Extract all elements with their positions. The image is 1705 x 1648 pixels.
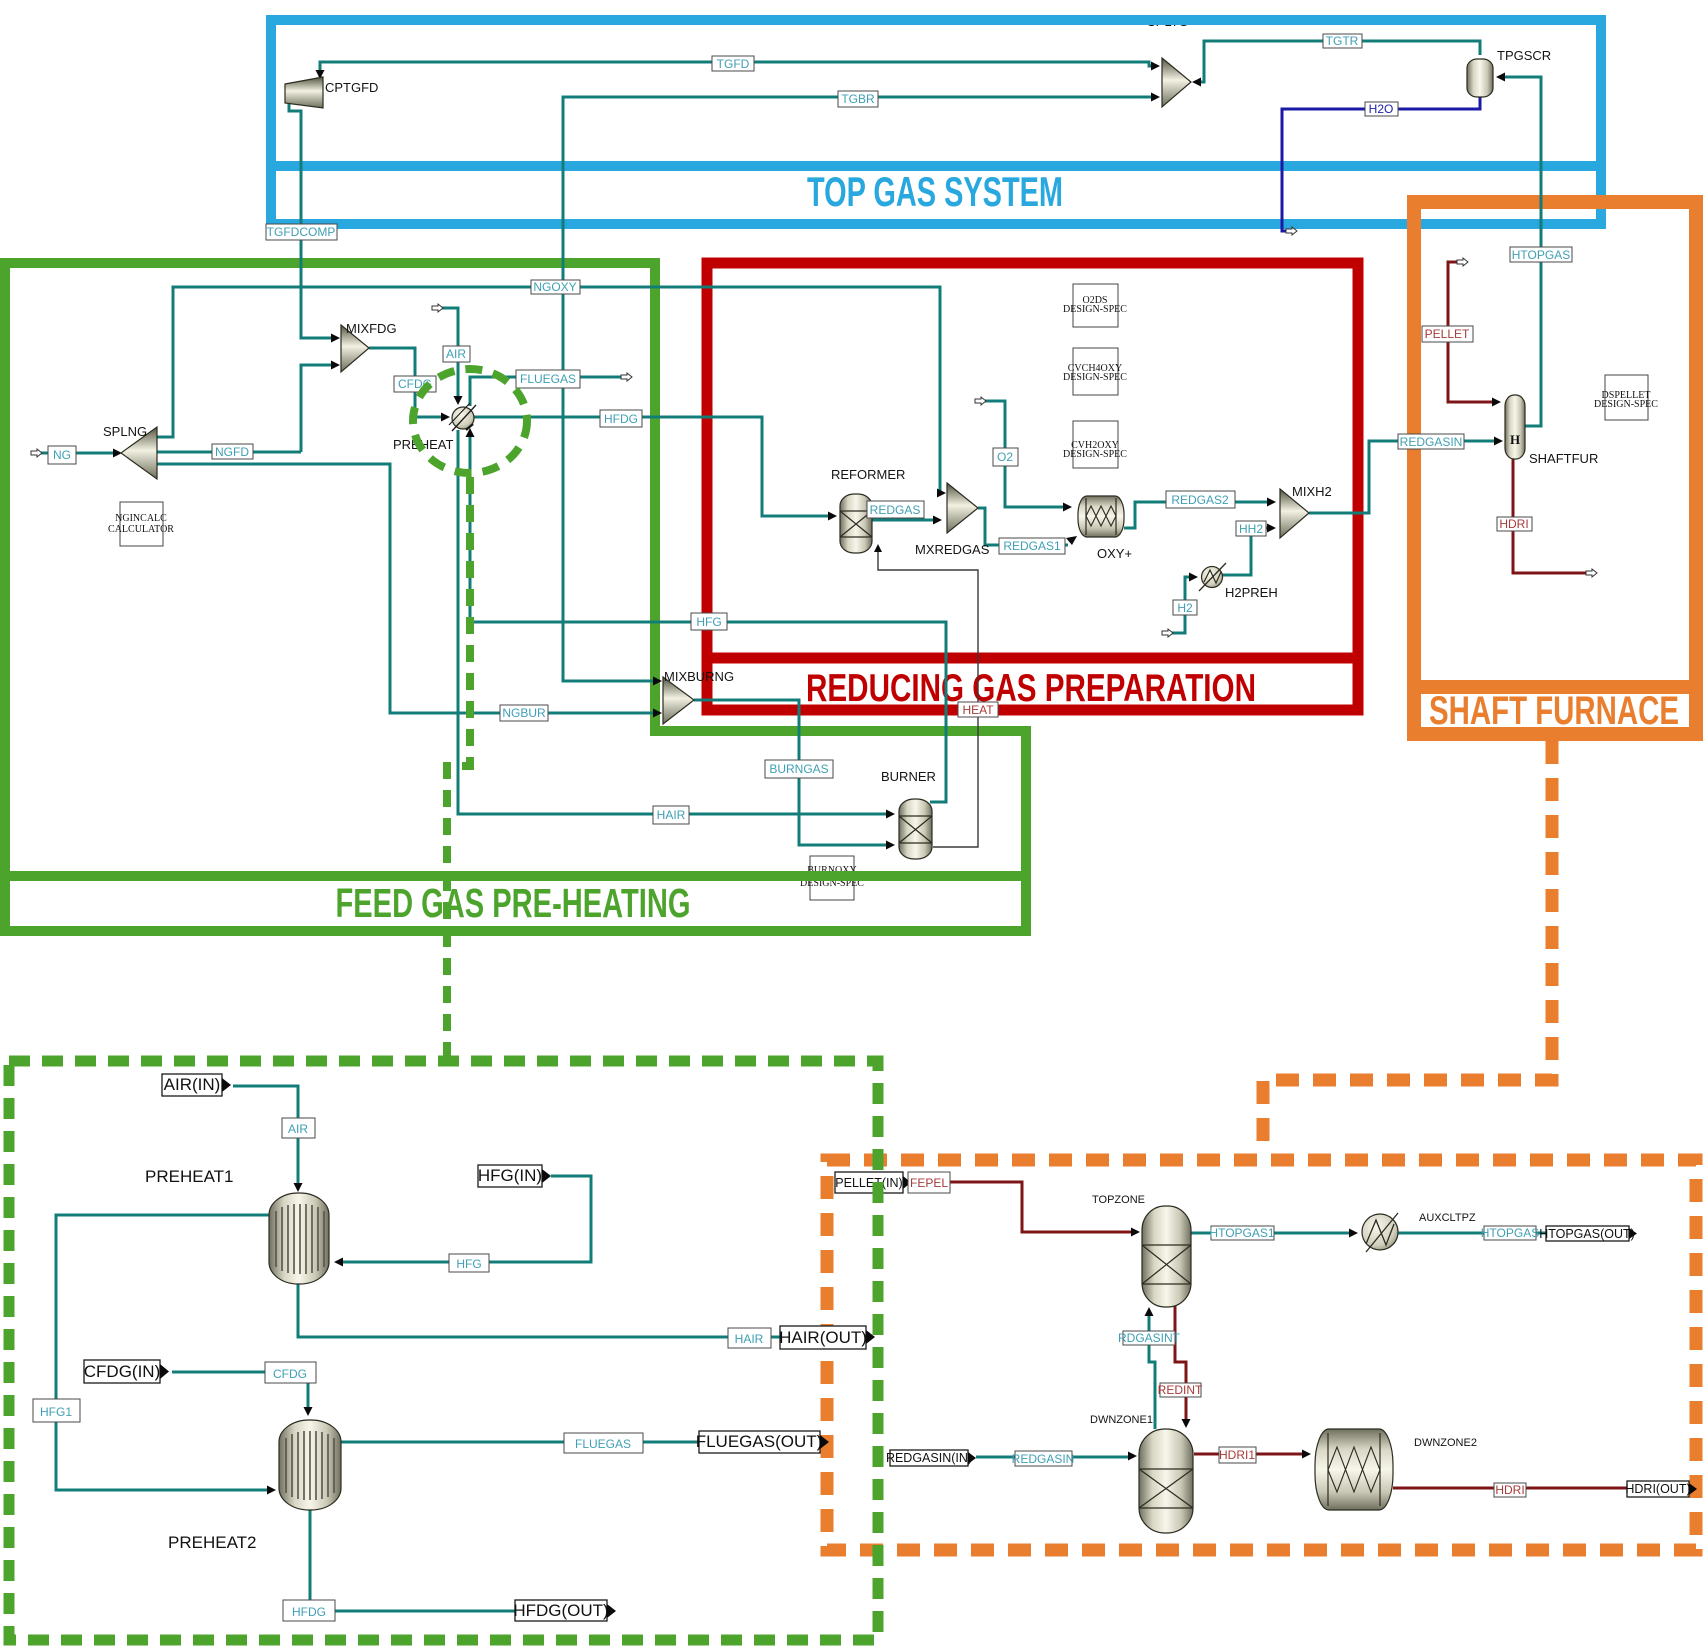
reactor DWNZONE2 [1315, 1429, 1393, 1510]
svg-text:REDGAS2: REDGAS2 [1171, 493, 1229, 507]
svg-text:HFG: HFG [696, 615, 721, 629]
node HAIR(OUT) port label [779, 1326, 875, 1349]
wire HFDG [474, 417, 831, 516]
svg-text:HEAT: HEAT [962, 703, 994, 717]
svg-text:NGBUR: NGBUR [502, 706, 546, 720]
frame green dashed detail box [9, 1061, 878, 1640]
mixer MIXFDG [341, 325, 369, 372]
svg-text:HDRI(OUT): HDRI(OUT) [1625, 1482, 1690, 1496]
node HFG(IN) port label [478, 1165, 551, 1187]
frame orange dashed detail box [827, 1160, 1696, 1550]
svg-text:HTOPGAS(OUT): HTOPGAS(OUT) [1539, 1227, 1635, 1241]
heater PREHEAT (hierarchy) [449, 403, 476, 431]
node REDGAS2 label [1166, 491, 1235, 508]
wire CFDG detail [172, 1372, 308, 1410]
wire TGFDCOMP [289, 101, 334, 338]
reactor REFORMER [840, 494, 872, 553]
node HTOPGAS label detail [1481, 1226, 1539, 1240]
svg-text:NGFD: NGFD [215, 445, 249, 459]
svg-text:PREHEAT2: PREHEAT2 [168, 1533, 257, 1552]
svg-text:AIR: AIR [288, 1122, 308, 1136]
svg-text:CPTGFD: CPTGFD [325, 80, 378, 95]
svg-text:PELLET: PELLET [1425, 327, 1470, 341]
svg-text:HFDG(OUT): HFDG(OUT) [513, 1601, 608, 1620]
svg-text:SHAFT FURNACE: SHAFT FURNACE [1429, 689, 1679, 733]
node HH2 label [1236, 521, 1266, 536]
wire REDGAS2 [1124, 502, 1270, 528]
svg-text:NG: NG [53, 448, 71, 462]
wire HTOPGAS main [1500, 77, 1541, 426]
wire H2 [1172, 577, 1191, 633]
svg-text:TOP GAS SYSTEM: TOP GAS SYSTEM [807, 168, 1063, 215]
node FLUEGAS(OUT) port label [696, 1431, 829, 1453]
svg-text:HFG(IN): HFG(IN) [478, 1166, 542, 1185]
node HDRI1 label [1219, 1447, 1256, 1463]
wire REDGAS [872, 519, 936, 522]
node TGFDCOMP label [266, 224, 337, 240]
wire green dashed connector [447, 477, 470, 1056]
wire TGTR [1201, 41, 1480, 82]
node NG label [48, 446, 76, 464]
svg-text:REDUCING GAS PREPARATION: REDUCING GAS PREPARATION [806, 667, 1256, 710]
svg-text:PREHEAT1: PREHEAT1 [145, 1167, 234, 1186]
svg-text:HTOPGAS: HTOPGAS [1512, 248, 1570, 262]
svg-text:AIR(IN): AIR(IN) [164, 1075, 221, 1094]
svg-text:HAIR: HAIR [735, 1332, 764, 1346]
node HAIR label detail [728, 1328, 771, 1348]
wire AIR detail [233, 1086, 298, 1186]
wire NGFD [157, 451, 301, 454]
svg-text:FLUEGAS: FLUEGAS [520, 372, 576, 386]
wire HDRI main [1513, 459, 1588, 573]
wire REDINT [1175, 1305, 1186, 1422]
node green dashed circle PREHEAT [413, 369, 527, 473]
svg-text:TOPZONE: TOPZONE [1092, 1194, 1145, 1206]
node RDGASINT label [1118, 1331, 1181, 1345]
svg-text:REFORMER: REFORMER [831, 467, 905, 482]
compressor CPTGFD [285, 77, 323, 108]
svg-text:MIXFDG: MIXFDG [346, 321, 397, 336]
node H2O label [1365, 102, 1398, 116]
node REDGASIN(IN) port label [886, 1450, 976, 1466]
node HFG label main [691, 613, 727, 630]
exchanger H2PREH [1199, 563, 1226, 591]
svg-text:BURNGAS: BURNGAS [769, 762, 828, 776]
node REDINT label [1158, 1383, 1203, 1397]
svg-text:HTOPGAS: HTOPGAS [1481, 1226, 1539, 1240]
svg-text:CALCULATOR: CALCULATOR [108, 524, 174, 535]
mixer MIXH2 [1280, 489, 1309, 538]
svg-text:REDGASIN: REDGASIN [1012, 1452, 1075, 1466]
svg-text:MIXH2: MIXH2 [1292, 484, 1332, 499]
design-spec box DSPELLET [1594, 375, 1658, 420]
node CFDG(IN) port label [84, 1360, 169, 1383]
svg-text:MXREDGAS: MXREDGAS [915, 542, 990, 557]
svg-text:DESIGN-SPEC: DESIGN-SPEC [1063, 449, 1127, 460]
wire NGBUR [157, 464, 656, 713]
svg-text:HAIR(OUT): HAIR(OUT) [779, 1328, 867, 1347]
svg-text:DWNZONE1: DWNZONE1 [1090, 1414, 1153, 1426]
heater PREHEAT2 [279, 1420, 341, 1510]
svg-text:OXY+: OXY+ [1097, 546, 1132, 561]
wire HTOPGAS detail [1398, 1232, 1629, 1235]
wire BURNGAS [694, 700, 889, 845]
svg-text:HTOPGAS1: HTOPGAS1 [1209, 1226, 1274, 1240]
svg-text:H2PREH: H2PREH [1225, 585, 1278, 600]
svg-text:HDRI1: HDRI1 [1219, 1448, 1255, 1462]
svg-text:TGBR: TGBR [841, 92, 875, 106]
wire O2 [985, 401, 1066, 507]
node HEAT label [958, 702, 998, 717]
svg-text:DESIGN-SPEC: DESIGN-SPEC [1594, 399, 1658, 410]
wire H2O [1282, 97, 1480, 231]
wire HDRI1 [1194, 1453, 1305, 1456]
node AIR(IN) port label [162, 1074, 231, 1096]
wire FLUEGAS main [470, 377, 623, 406]
wire HFG detail [340, 1176, 591, 1262]
svg-text:HAIR: HAIR [657, 808, 686, 822]
reactor BURNER [899, 799, 932, 859]
svg-text:AIR: AIR [446, 347, 466, 361]
wire HEAT (heat stream) [878, 548, 978, 847]
design-spec box CVCH4OXY [1063, 348, 1127, 395]
node TGFD label [712, 56, 754, 71]
wire HAIR detail [298, 1284, 782, 1337]
wire HTOPGAS1 [1191, 1232, 1352, 1235]
reactor OXY+ [1078, 496, 1124, 537]
wire HAIR main [458, 430, 889, 814]
node HDRI label detail [1494, 1483, 1526, 1497]
node HFDG label main [600, 410, 642, 427]
svg-text:CFDG: CFDG [273, 1367, 307, 1381]
wire REDGASIN main [1309, 441, 1497, 513]
wire FEPEL [910, 1182, 1134, 1232]
svg-text:HFDG: HFDG [292, 1605, 326, 1619]
svg-text:FLUEGAS(OUT): FLUEGAS(OUT) [696, 1432, 823, 1451]
svg-text:FEPEL: FEPEL [910, 1176, 948, 1190]
wire HFDG detail [310, 1510, 517, 1611]
vessel TPGSCR [1467, 59, 1493, 97]
wire REDGAS1 [978, 508, 1068, 545]
column SHAFTFUR [1505, 395, 1525, 459]
wire AIR main [442, 308, 458, 400]
svg-text:RDGASINT: RDGASINT [1118, 1331, 1181, 1345]
node HTOPGAS1 label [1209, 1226, 1274, 1240]
svg-text:HFG1: HFG1 [40, 1405, 72, 1419]
svg-text:NGOXY: NGOXY [533, 280, 576, 294]
svg-text:HDRI: HDRI [1495, 1483, 1524, 1497]
node REDGAS1 label [999, 538, 1065, 554]
node HFDG label detail [283, 1600, 335, 1621]
node FEPEL label [908, 1172, 950, 1193]
node HDRI label main [1497, 517, 1532, 531]
svg-text:TGTR: TGTR [1326, 34, 1359, 48]
node HAIR label main [653, 806, 689, 824]
mixer MXREDGAS [947, 483, 978, 533]
splitter SPLTG [1162, 58, 1191, 107]
node CFDG label [394, 376, 436, 392]
svg-text:SHAFTFUR: SHAFTFUR [1529, 451, 1598, 466]
splitter SPLNG [121, 427, 157, 479]
svg-text:REDGAS: REDGAS [870, 503, 921, 517]
reactor DWNZONE1 [1139, 1429, 1193, 1533]
wire orange dashed connector [1263, 741, 1552, 1154]
wire TGFD [320, 62, 1156, 77]
wire HH2 [1222, 528, 1270, 575]
exchanger AUXCLTPZ [1362, 1213, 1398, 1252]
svg-text:HH2: HH2 [1239, 522, 1263, 536]
svg-text:FEED GAS PRE-HEATING: FEED GAS PRE-HEATING [336, 880, 691, 926]
node NGBUR label [500, 705, 548, 721]
svg-text:REDGAS1: REDGAS1 [1003, 539, 1061, 553]
svg-text:TPGSCR: TPGSCR [1497, 48, 1551, 63]
node H2 label [1173, 600, 1197, 615]
svg-text:H2O: H2O [1369, 102, 1394, 116]
wire REDGASIN detail [976, 1456, 1131, 1459]
wire FLUEGAS detail [337, 1441, 701, 1444]
svg-text:CFDG(IN): CFDG(IN) [84, 1362, 160, 1381]
design-spec box NGINCALC [108, 502, 174, 546]
svg-text:TGFD: TGFD [717, 57, 750, 71]
frame SHAFT FURNACE (orange) [1408, 202, 1702, 734]
svg-text:H2: H2 [1177, 601, 1193, 615]
svg-text:DESIGN-SPEC: DESIGN-SPEC [1063, 304, 1127, 315]
svg-text:AUXCLTPZ: AUXCLTPZ [1419, 1212, 1476, 1224]
node FLUEGAS label main [516, 370, 580, 388]
node AIR label detail [282, 1118, 315, 1138]
node PELLET(IN) port label [835, 1172, 911, 1193]
node REDGASIN label main [1398, 434, 1464, 449]
wire TGBR [563, 97, 1156, 681]
svg-text:FLUEGAS: FLUEGAS [575, 1437, 631, 1451]
wire RDGASINT [1149, 1312, 1155, 1429]
wire PELLET [1448, 262, 1495, 402]
wire NG [40, 452, 116, 455]
frame TOP GAS SYSTEM (blue) [267, 20, 1605, 224]
svg-text:NGINCALC: NGINCALC [115, 513, 167, 524]
node NGOXY label [531, 280, 580, 294]
design-spec box O2DS [1063, 284, 1127, 327]
node TGBR label [838, 91, 878, 107]
design-spec box CVH2OXY [1063, 421, 1127, 468]
wire HFG1 [56, 1215, 270, 1490]
node TGTR label [1323, 34, 1362, 48]
svg-text:O2: O2 [997, 450, 1013, 464]
node HFG label detail [449, 1254, 489, 1272]
svg-text:BURNER: BURNER [881, 769, 936, 784]
node HTOPGAS(OUT) port label [1539, 1226, 1637, 1241]
svg-text:REDGASIN(IN): REDGASIN(IN) [886, 1451, 972, 1465]
node FLUEGAS label detail [564, 1433, 643, 1453]
node AIR label [443, 346, 470, 362]
wire HDRI detail [1393, 1487, 1689, 1490]
frame REDUCING GAS PREPARATION (red) [702, 263, 1363, 710]
node CFDG label detail [265, 1362, 316, 1383]
node HFDG(OUT) port label [513, 1600, 616, 1621]
node HFG1 label [33, 1399, 80, 1422]
svg-text:DWNZONE2: DWNZONE2 [1414, 1437, 1477, 1449]
heater PREHEAT1 [269, 1193, 329, 1284]
svg-text:HFG: HFG [456, 1257, 481, 1271]
frame FEED GAS PRE-HEATING (green) [0, 263, 1031, 931]
node HDRI(OUT) port label [1625, 1481, 1697, 1497]
node BURNGAS label [765, 760, 833, 778]
node NGFD label [212, 444, 253, 459]
node REDGASIN label detail [1012, 1451, 1075, 1466]
svg-text:SPLNG: SPLNG [103, 424, 147, 439]
design-spec box BURNOXY [800, 856, 864, 900]
svg-text:PELLET(IN): PELLET(IN) [835, 1176, 902, 1190]
wire CFDG main [369, 348, 444, 417]
wire HFG main [470, 432, 946, 802]
wire NGOXY [157, 287, 941, 493]
node O2 label [993, 448, 1018, 466]
node HTOPGAS label [1510, 247, 1572, 262]
reactor TOPZONE [1142, 1206, 1191, 1307]
svg-text:MIXBURNG: MIXBURNG [664, 669, 734, 684]
svg-text:TGFDCOMP: TGFDCOMP [267, 225, 336, 239]
mixer MIXBURNG [663, 677, 694, 724]
wire NGFD riser [301, 365, 334, 452]
svg-text:HDRI: HDRI [1499, 517, 1528, 531]
svg-text:DESIGN-SPEC: DESIGN-SPEC [1063, 372, 1127, 383]
svg-text:REDINT: REDINT [1158, 1383, 1203, 1397]
svg-text:HFDG: HFDG [604, 412, 638, 426]
svg-text:REDGASIN: REDGASIN [1400, 435, 1463, 449]
svg-text:H: H [1510, 432, 1520, 447]
node PELLET label [1422, 326, 1473, 342]
node REDGAS label [867, 501, 924, 518]
